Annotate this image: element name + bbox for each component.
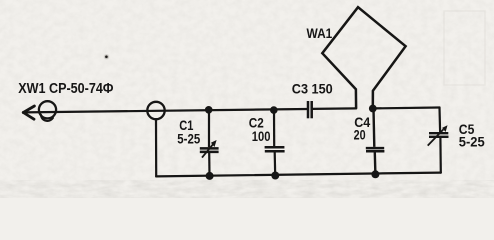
svg-text:5-25: 5-25 <box>177 132 200 147</box>
wire right rail to C5 corner <box>373 106 440 109</box>
capacitor C1 trimmer arrowhead <box>211 140 217 147</box>
connector XW1 circle <box>39 101 56 118</box>
faint bleed-through box top right <box>444 11 485 85</box>
capacitor C5 trimmer arrowhead <box>442 125 447 132</box>
capacitor C2 <box>265 110 285 176</box>
node C4 top junction <box>369 105 377 113</box>
node C1 top junction <box>205 106 213 114</box>
wire C3 to antenna left leg <box>313 107 357 110</box>
capacitor C4 <box>366 109 385 175</box>
node C2 bottom junction <box>271 172 279 180</box>
label C5 value <box>459 134 485 149</box>
svg-text:20: 20 <box>354 127 366 142</box>
label C3 <box>292 81 333 96</box>
label C1 <box>179 118 193 133</box>
label XW1 type <box>18 80 114 96</box>
node C2 top junction <box>270 106 278 114</box>
node C4 bottom junction <box>371 170 379 178</box>
label C4 value <box>354 127 366 142</box>
label C5 <box>459 121 475 137</box>
wire right drop lower (from C5) <box>439 138 442 172</box>
label C2 value <box>252 129 271 144</box>
connector XW1 circle tail curl <box>41 115 53 121</box>
label C4 <box>354 114 371 130</box>
label C2 <box>249 116 264 131</box>
wire main left rail <box>24 109 308 112</box>
wire left drop from coax screen <box>155 119 157 176</box>
svg-text:5-25: 5-25 <box>459 134 485 149</box>
antenna WA1 loop <box>322 7 405 108</box>
capacitor C5 (trimmer) <box>428 129 449 145</box>
label WA1 <box>307 25 333 41</box>
svg-text:C3 150: C3 150 <box>292 81 333 96</box>
wire right drop upper (to C5) <box>438 108 441 132</box>
capacitor C3 (series) <box>308 101 312 118</box>
svg-text:XW1 СР-50-74Ф: XW1 СР-50-74Ф <box>18 80 114 96</box>
connector XW1 arrow <box>23 106 34 119</box>
capacitor C1 (trimmer) <box>200 110 219 176</box>
label C1 value <box>177 132 200 147</box>
coax screen circle <box>147 102 164 119</box>
svg-text:WA1: WA1 <box>307 25 333 41</box>
wire bottom rail <box>156 173 441 177</box>
node C1 bottom junction <box>206 172 214 180</box>
svg-text:100: 100 <box>252 129 271 144</box>
ink speck <box>104 55 108 59</box>
